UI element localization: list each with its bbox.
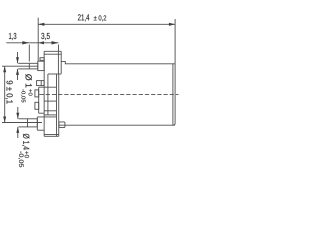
bottom block bottom outer	[44, 135, 59, 137]
label 1,3	[9, 33, 16, 40]
dim d1.4 upper arrow	[17, 107, 19, 119]
dim 3,5 left arrow	[38, 41, 44, 44]
label 9 +-0,1 rotated	[5, 81, 12, 104]
dim 9 bottom arrow	[3, 117, 6, 123]
flange left vertical	[43, 51, 45, 136]
body top edge	[61, 61, 175, 63]
extension line x174.8	[174, 19, 176, 64]
plate bottom edge	[39, 112, 44, 114]
body left face outer vertical	[58, 74, 60, 136]
extension line x58.5	[58, 45, 60, 52]
label tol 0,2	[94, 15, 106, 21]
label d1,4 tol upper	[25, 151, 29, 157]
pin2	[28, 119, 38, 127]
middle column right edge	[47, 74, 49, 115]
top block bottom edge	[48, 73, 61, 75]
dim 9 line	[4, 66, 6, 122]
body bottom edge	[59, 124, 175, 126]
tab A	[40, 58, 44, 61]
label 21,4	[78, 14, 89, 21]
dim 21,4 line	[38, 23, 175, 25]
column long rungs	[44, 100, 56, 102]
dim d1 lower arrow	[17, 69, 19, 80]
bump C	[35, 102, 39, 109]
dim d1 upper arrow	[17, 52, 19, 63]
label d1 tol upper	[29, 89, 33, 95]
extension ticks d1	[18, 62, 29, 64]
extension line x29.3	[28, 45, 30, 62]
body left face inner vertical	[56, 74, 58, 136]
centerline dashed	[40, 93, 179, 95]
top block right outer	[60, 51, 62, 74]
dim 9 top arrow	[3, 66, 6, 72]
dim 21,4 left arrow	[38, 23, 44, 26]
plate left edge	[38, 87, 40, 113]
label d1 tol lower	[21, 89, 26, 102]
label d1,4 tol lower	[18, 151, 23, 167]
extension line y122.5	[2, 122, 42, 124]
label d1,4 rotated	[22, 134, 29, 150]
pin1	[29, 63, 38, 69]
bump A2	[37, 81, 45, 86]
dim 1,3 arrow	[22, 41, 29, 44]
body right inner edge	[172, 64, 174, 125]
dim 1,3 / 3,5 line	[6, 42, 58, 44]
extension line x38	[37, 18, 39, 62]
extension ticks d1.4	[18, 118, 27, 120]
bottom block top inner merged with collar2 top	[37, 116, 56, 118]
bottom block top outer	[44, 114, 56, 116]
dim d1.4 lower arrow	[17, 127, 19, 138]
pin2 collar bottom edge	[37, 129, 44, 131]
body lug box	[59, 122, 65, 128]
top block right inner	[57, 51, 59, 74]
dim 21,4 right arrow	[169, 23, 175, 26]
body right outer edge	[173, 64, 175, 125]
pin1 collar	[38, 61, 44, 70]
label 3,5	[41, 33, 50, 40]
bottom block bottom inner	[44, 134, 59, 136]
extension line y66.15	[2, 65, 38, 67]
bump B	[35, 90, 39, 97]
top block inner horizontal	[44, 53, 61, 55]
plate top edge	[39, 86, 57, 88]
label d1 rotated	[25, 74, 32, 87]
top block top edge	[44, 50, 61, 52]
dim 3,5 right arrow	[52, 41, 59, 44]
pin2 collar left edge	[36, 117, 38, 130]
